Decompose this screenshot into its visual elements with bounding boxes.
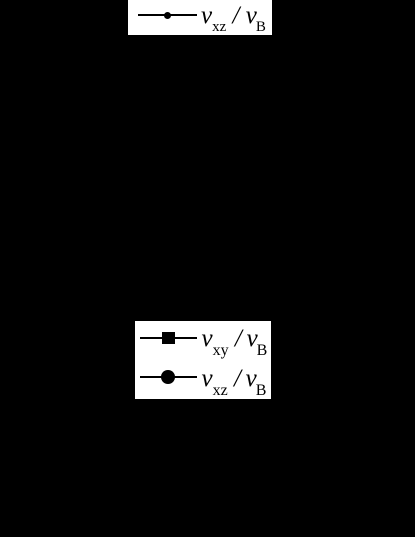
legend line row2 bbox=[140, 376, 198, 378]
circle marker row2 bbox=[161, 370, 175, 384]
legend box bottom bbox=[135, 321, 271, 399]
legend line top bbox=[138, 14, 197, 16]
label v_xz / v_B top bbox=[201, 2, 266, 33]
label v_xz / v_B row2 bbox=[202, 365, 267, 395]
legend box top (v_xz / v_B) bbox=[128, 0, 273, 35]
legend line row1 bbox=[140, 337, 198, 339]
circle marker top bbox=[164, 12, 172, 20]
label v_xy / v_B row1 bbox=[202, 325, 268, 355]
square marker row1 bbox=[162, 332, 175, 345]
